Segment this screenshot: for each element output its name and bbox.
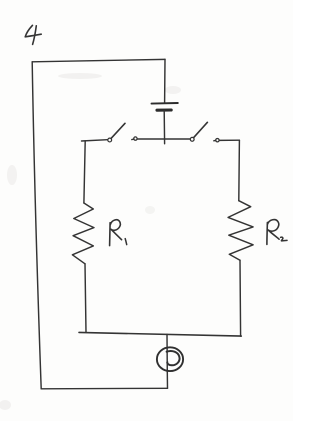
switch S2 xyxy=(190,122,219,142)
wire left branch lower xyxy=(85,264,86,333)
label R1 xyxy=(110,220,127,246)
wire meter bottom lead xyxy=(166,372,168,388)
label R2 xyxy=(267,220,287,245)
wire right switch to right branch corner xyxy=(219,139,239,141)
wire meter top lead xyxy=(166,334,168,372)
wire middle (between switches) xyxy=(137,138,190,140)
wire battery top lead vertical xyxy=(164,59,166,102)
wire bottom (outer loop) xyxy=(41,387,167,390)
battery B1 xyxy=(152,103,178,110)
wire left rail (outer loop) xyxy=(32,62,41,389)
wire inner bottom bus xyxy=(79,332,241,336)
wire left branch upper xyxy=(84,141,85,203)
wire battery bottom lead xyxy=(163,111,165,144)
wire right branch lower xyxy=(239,260,242,336)
label 4 (figure number) xyxy=(25,25,41,44)
resistor R1 xyxy=(72,203,94,264)
resistor R2 xyxy=(228,201,253,261)
wire right branch upper xyxy=(238,140,241,201)
smudge artifacts xyxy=(0,73,181,410)
wire top (battery top lead to left rail) xyxy=(32,59,165,61)
meter M1 (generator/meter circle) xyxy=(157,347,183,371)
wire left switch feed xyxy=(82,140,108,141)
switch S1 xyxy=(108,123,137,142)
